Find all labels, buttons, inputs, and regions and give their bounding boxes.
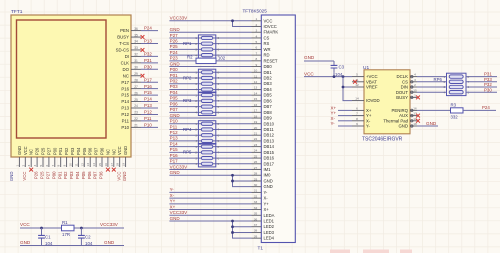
T1 pin 3 FMARK bbox=[252, 31, 262, 33]
svg-text:10: 10 bbox=[254, 69, 258, 73]
svg-text:14: 14 bbox=[254, 91, 258, 95]
svg-text:P17: P17 bbox=[144, 77, 152, 82]
svg-text:DI: DI bbox=[125, 54, 129, 59]
svg-text:P06: P06 bbox=[88, 147, 93, 155]
svg-text:8: 8 bbox=[356, 117, 358, 121]
T1 pin 5 RS bbox=[252, 43, 262, 45]
svg-text:DO: DO bbox=[123, 67, 130, 72]
svg-text:P24: P24 bbox=[482, 105, 490, 110]
svg-text:DB17: DB17 bbox=[264, 161, 275, 166]
svg-text:LED1: LED1 bbox=[264, 219, 275, 224]
T1 pin 31 Y- bbox=[252, 191, 262, 193]
svg-text:DB2: DB2 bbox=[264, 76, 273, 81]
T1 pin 35 LEDA bbox=[252, 214, 262, 216]
svg-text:3: 3 bbox=[27, 165, 31, 167]
svg-text:P13: P13 bbox=[144, 103, 152, 108]
svg-text:NC: NC bbox=[111, 149, 116, 155]
svg-text:DB0: DB0 bbox=[264, 64, 273, 69]
svg-text:24: 24 bbox=[134, 104, 138, 108]
svg-text:P02: P02 bbox=[64, 147, 69, 155]
svg-text:12: 12 bbox=[80, 163, 84, 167]
svg-text:GND: GND bbox=[20, 240, 31, 245]
wire PENIRQ to R3 bbox=[417, 109, 451, 111]
svg-text:P06: P06 bbox=[87, 171, 92, 179]
svg-text:21: 21 bbox=[254, 132, 258, 136]
no-connect X on BUSY bbox=[416, 96, 420, 100]
svg-text:DB3: DB3 bbox=[264, 81, 273, 86]
svg-text:P13: P13 bbox=[121, 106, 129, 111]
wire net GND to T1 pin 28 bbox=[169, 174, 251, 176]
svg-text:P02: P02 bbox=[63, 171, 68, 179]
T1 pin 37 LED2 bbox=[252, 226, 262, 228]
no-connect X on bottom pin 16 bbox=[106, 168, 110, 172]
svg-text:26: 26 bbox=[254, 160, 258, 164]
svg-text:31: 31 bbox=[254, 189, 258, 193]
junction C3-VCC bbox=[333, 75, 336, 78]
svg-text:32: 32 bbox=[134, 53, 138, 57]
svg-text:R3: R3 bbox=[451, 102, 457, 107]
svg-text:NC: NC bbox=[105, 149, 110, 155]
svg-text:NC: NC bbox=[29, 149, 34, 155]
svg-text:VCC33V: VCC33V bbox=[170, 210, 188, 215]
resistor pack RP6 bbox=[447, 73, 467, 95]
svg-text:R1: R1 bbox=[62, 220, 68, 225]
svg-text:P03: P03 bbox=[70, 147, 75, 155]
svg-text:16: 16 bbox=[413, 107, 417, 111]
T1 pin 30 GND bbox=[252, 186, 262, 188]
svg-text:4: 4 bbox=[255, 34, 257, 38]
wire U1 to RP6 row 2 bbox=[417, 81, 447, 83]
svg-text:332: 332 bbox=[451, 114, 459, 119]
svg-text:DB10: DB10 bbox=[264, 121, 275, 126]
svg-text:P30: P30 bbox=[144, 64, 152, 69]
svg-text:P13: P13 bbox=[144, 39, 152, 44]
svg-text:4: 4 bbox=[195, 111, 197, 115]
svg-text:7: 7 bbox=[218, 99, 220, 103]
svg-text:IOVDD: IOVDD bbox=[366, 98, 380, 103]
svg-text:LED2: LED2 bbox=[264, 224, 275, 229]
junction at C1 bbox=[40, 227, 43, 230]
wire to net P13 bbox=[141, 107, 158, 109]
svg-text:GND: GND bbox=[122, 172, 127, 182]
svg-text:13: 13 bbox=[86, 163, 90, 167]
T1 pin 16 DB7 bbox=[252, 106, 262, 108]
svg-text:P25: P25 bbox=[40, 171, 45, 179]
GND tie for pins 29 30 bbox=[233, 175, 252, 186]
resistor R3 332 bbox=[451, 108, 464, 113]
wire net Y- to T1 pin 31 bbox=[169, 191, 251, 193]
svg-text:IM1: IM1 bbox=[264, 167, 272, 172]
svg-text:GND: GND bbox=[17, 146, 22, 155]
svg-text:6: 6 bbox=[356, 107, 358, 111]
wire RP6 to net P30 bbox=[466, 91, 497, 93]
capacitor C1 104 bbox=[41, 228, 43, 235]
svg-text:15: 15 bbox=[98, 163, 102, 167]
svg-text:TFT1: TFT1 bbox=[11, 9, 23, 15]
svg-text:24: 24 bbox=[254, 149, 258, 153]
T1 pin 23 DB14 bbox=[252, 146, 262, 148]
T1 pin 1 VCC bbox=[252, 20, 262, 22]
svg-text:RP3: RP3 bbox=[183, 98, 192, 103]
svg-text:5: 5 bbox=[218, 139, 220, 143]
svg-text:8: 8 bbox=[218, 36, 220, 40]
svg-text:R2: R2 bbox=[187, 55, 193, 60]
T1 pin 7 RD bbox=[252, 54, 262, 56]
wire net P03 to T1 pin 13 bbox=[169, 88, 251, 90]
svg-text:P32: P32 bbox=[144, 52, 152, 57]
svg-text:DB13: DB13 bbox=[264, 138, 275, 143]
capacitor C3 104 bbox=[333, 61, 335, 65]
svg-text:21: 21 bbox=[134, 124, 138, 128]
wire U1 to RP6 row 4 bbox=[417, 91, 447, 93]
svg-text:DB16: DB16 bbox=[264, 156, 275, 161]
svg-text:P24: P24 bbox=[170, 50, 179, 55]
svg-text:22: 22 bbox=[254, 137, 258, 141]
svg-text:17R: 17R bbox=[62, 232, 70, 237]
svg-text:GND: GND bbox=[9, 172, 14, 182]
svg-text:19: 19 bbox=[122, 163, 126, 167]
wire net P26 to T1 pin 5 bbox=[169, 43, 251, 45]
svg-text:RD: RD bbox=[264, 53, 270, 58]
svg-text:VCC33V: VCC33V bbox=[170, 16, 188, 21]
T1 pin 28 IM0 bbox=[252, 174, 262, 176]
svg-text:C2: C2 bbox=[85, 235, 91, 240]
T1 pin 27 IM1 bbox=[252, 169, 262, 171]
svg-text:X+: X+ bbox=[264, 207, 270, 212]
wire to net P31 bbox=[141, 62, 158, 64]
T1 pin 8 RESET bbox=[252, 60, 262, 62]
svg-text:GND: GND bbox=[170, 27, 181, 32]
wire net P05 to T1 pin 15 bbox=[169, 100, 251, 102]
svg-text:TFT8K5025: TFT8K5025 bbox=[243, 8, 268, 13]
svg-text:DB8: DB8 bbox=[264, 110, 273, 115]
svg-text:CS: CS bbox=[264, 35, 270, 40]
svg-text:DB1: DB1 bbox=[264, 70, 273, 75]
resistor pack RP3 bbox=[198, 92, 215, 115]
svg-text:RP6: RP6 bbox=[434, 77, 443, 82]
svg-text:P10: P10 bbox=[170, 119, 179, 124]
wire net VCC33V to T1 pin 35 bbox=[169, 214, 251, 216]
junction VCC branch bbox=[342, 75, 345, 78]
T1 pin 17 DB8 bbox=[252, 111, 262, 113]
svg-text:GND: GND bbox=[170, 61, 181, 66]
svg-text:LED4: LED4 bbox=[264, 236, 275, 241]
T1 pin 14 DB5 bbox=[252, 94, 262, 96]
T1 pin 25 DB16 bbox=[252, 157, 262, 159]
svg-text:26: 26 bbox=[134, 91, 138, 95]
T1 pin 2 IOVCC bbox=[252, 26, 262, 28]
svg-text:P04: P04 bbox=[76, 147, 81, 155]
svg-text:LED3: LED3 bbox=[264, 230, 275, 235]
TFT module TFT1 body bbox=[11, 15, 131, 157]
svg-text:DB11: DB11 bbox=[264, 127, 275, 132]
svg-text:36: 36 bbox=[134, 27, 138, 31]
no-connect X on bottom pin 3 bbox=[29, 168, 33, 172]
svg-text:Y-: Y- bbox=[264, 190, 268, 195]
svg-text:30: 30 bbox=[134, 66, 138, 70]
svg-text:P12: P12 bbox=[170, 130, 179, 135]
svg-text:X+: X+ bbox=[170, 204, 176, 209]
svg-text:VCC: VCC bbox=[264, 18, 273, 23]
svg-text:2: 2 bbox=[195, 99, 197, 103]
no-connect X on pin 35 bbox=[141, 35, 145, 39]
wire RP6 to net P32 bbox=[466, 86, 497, 88]
svg-text:8: 8 bbox=[218, 122, 220, 126]
svg-text:7: 7 bbox=[51, 165, 55, 167]
svg-text:7: 7 bbox=[218, 128, 220, 132]
svg-text:P01: P01 bbox=[57, 171, 62, 179]
T1 pin 6 WR bbox=[252, 48, 262, 50]
resistor pack RP1 bbox=[198, 35, 215, 58]
svg-text:8: 8 bbox=[255, 57, 257, 61]
no-connect X on AUX bbox=[416, 114, 420, 118]
resistor pack RP5 bbox=[198, 144, 215, 167]
svg-text:12: 12 bbox=[355, 83, 359, 87]
svg-text:4: 4 bbox=[414, 73, 416, 77]
svg-text:VCC: VCC bbox=[117, 146, 122, 155]
no-connect X on pin 29 bbox=[141, 74, 145, 78]
svg-text:7: 7 bbox=[356, 112, 358, 116]
svg-text:P03: P03 bbox=[170, 84, 179, 89]
svg-text:6: 6 bbox=[218, 82, 220, 86]
wire to net P11 bbox=[141, 120, 158, 122]
wire GND to C3 bbox=[304, 60, 334, 62]
T1 pin 9 DB0 bbox=[252, 66, 262, 68]
wire net GND to T1 pin 36 bbox=[169, 220, 251, 222]
svg-text:1: 1 bbox=[195, 145, 197, 149]
svg-text:VCC: VCC bbox=[20, 222, 30, 227]
svg-text:1: 1 bbox=[414, 94, 416, 98]
svg-text:GND: GND bbox=[304, 55, 315, 60]
svg-text:18: 18 bbox=[254, 114, 258, 118]
svg-text:17: 17 bbox=[254, 109, 258, 113]
svg-text:4: 4 bbox=[195, 53, 197, 57]
svg-text:7: 7 bbox=[218, 42, 220, 46]
wire net GND to T1 pin 18 bbox=[169, 117, 251, 119]
svg-text:P25: P25 bbox=[170, 44, 179, 49]
svg-text:9: 9 bbox=[255, 63, 257, 67]
T1 pin 11 DB2 bbox=[252, 77, 262, 79]
svg-text:9: 9 bbox=[63, 165, 67, 167]
wire to net P14 bbox=[141, 101, 158, 103]
svg-text:P02: P02 bbox=[170, 79, 179, 84]
svg-text:C1: C1 bbox=[45, 235, 51, 240]
svg-text:38: 38 bbox=[254, 229, 258, 233]
wire to net P32 bbox=[141, 55, 158, 57]
svg-text:VCC: VCC bbox=[304, 72, 314, 77]
T1 pin 19 DB10 bbox=[252, 123, 262, 125]
svg-text:5: 5 bbox=[218, 162, 220, 166]
svg-text:DB9: DB9 bbox=[264, 116, 273, 121]
svg-text:VCC33V: VCC33V bbox=[100, 222, 119, 227]
svg-text:11: 11 bbox=[254, 74, 257, 78]
svg-text:4: 4 bbox=[195, 139, 197, 143]
wire net P11 to T1 pin 20 bbox=[169, 128, 251, 130]
svg-text:6: 6 bbox=[218, 105, 220, 109]
T1 pin 36 LED1 bbox=[252, 220, 262, 222]
svg-text:1: 1 bbox=[195, 93, 197, 97]
svg-text:P16: P16 bbox=[170, 153, 179, 158]
svg-text:TSC2046EIRGVR: TSC2046EIRGVR bbox=[362, 137, 403, 143]
svg-text:P07: P07 bbox=[93, 171, 98, 179]
wire VCC to VREF and IOVDD bbox=[343, 77, 352, 101]
svg-text:9: 9 bbox=[356, 122, 358, 126]
svg-text:8: 8 bbox=[218, 93, 220, 97]
svg-text:28: 28 bbox=[254, 172, 258, 176]
svg-text:2: 2 bbox=[195, 128, 197, 132]
T1 pin 21 DB12 bbox=[252, 134, 262, 136]
svg-text:5: 5 bbox=[218, 88, 220, 92]
svg-text:P36: P36 bbox=[100, 147, 105, 155]
svg-text:1: 1 bbox=[195, 36, 197, 40]
svg-text:27: 27 bbox=[134, 85, 138, 89]
svg-text:GND: GND bbox=[170, 216, 181, 221]
T1 pin 13 DB4 bbox=[252, 88, 262, 90]
svg-text:P07: P07 bbox=[94, 147, 99, 155]
junction at C2 bbox=[80, 227, 83, 230]
svg-text:23: 23 bbox=[134, 111, 138, 115]
svg-text:RESET: RESET bbox=[264, 58, 278, 63]
svg-text:P00: P00 bbox=[51, 171, 56, 179]
svg-text:1: 1 bbox=[15, 165, 19, 167]
svg-text:P12: P12 bbox=[144, 110, 152, 115]
svg-text:P16: P16 bbox=[121, 86, 129, 91]
wire VCC to U1 +VCC bbox=[304, 76, 352, 78]
svg-text:2: 2 bbox=[195, 42, 197, 46]
svg-text:GND: GND bbox=[123, 146, 128, 155]
wire net P04 to T1 pin 14 bbox=[169, 94, 251, 96]
svg-text:3: 3 bbox=[195, 156, 197, 160]
wire net GND to T1 pin 9 bbox=[169, 66, 251, 68]
wire U1 to RP6 row 3 bbox=[417, 86, 447, 88]
svg-text:16: 16 bbox=[104, 163, 108, 167]
T1 pin 10 DB1 bbox=[252, 71, 262, 73]
svg-text:3: 3 bbox=[195, 48, 197, 52]
svg-text:102: 102 bbox=[218, 55, 226, 60]
wire net P01 to T1 pin 11 bbox=[169, 77, 251, 79]
svg-text:14: 14 bbox=[355, 97, 359, 101]
svg-text:8: 8 bbox=[57, 165, 61, 167]
svg-text:16: 16 bbox=[254, 103, 258, 107]
T1 pin 38 LED3 bbox=[252, 231, 262, 233]
wire net P10 to T1 pin 19 bbox=[169, 123, 251, 125]
wire to net P16 bbox=[141, 88, 158, 90]
svg-text:LEDA: LEDA bbox=[264, 213, 275, 218]
svg-text:35: 35 bbox=[254, 212, 258, 216]
svg-text:6: 6 bbox=[218, 156, 220, 160]
svg-text:RP2: RP2 bbox=[183, 75, 192, 80]
svg-text:P24: P24 bbox=[144, 26, 152, 31]
wire to net P10 bbox=[141, 126, 158, 128]
svg-text:34: 34 bbox=[134, 40, 138, 44]
wire net P07 to T1 pin 17 bbox=[169, 111, 251, 113]
svg-text:29: 29 bbox=[134, 72, 138, 76]
svg-text:6: 6 bbox=[218, 48, 220, 52]
wire GND rail bbox=[20, 245, 124, 247]
svg-text:CLK: CLK bbox=[121, 60, 129, 65]
svg-text:P04: P04 bbox=[75, 171, 80, 179]
svg-text:5: 5 bbox=[218, 111, 220, 115]
wire net P13 to T1 pin 22 bbox=[169, 140, 251, 142]
svg-text:5: 5 bbox=[356, 73, 358, 77]
svg-text:6: 6 bbox=[218, 133, 220, 137]
wire net P23 to T1 pin 8 bbox=[169, 60, 251, 62]
svg-text:GND: GND bbox=[104, 240, 115, 245]
T1 pin 22 DB13 bbox=[252, 140, 262, 142]
no-connect X on pin 33 bbox=[141, 48, 145, 52]
svg-text:31: 31 bbox=[134, 59, 138, 63]
svg-text:22: 22 bbox=[134, 117, 138, 121]
wire net P15 to T1 pin 24 bbox=[169, 151, 251, 153]
wire VCC33V branch to IOVCC pin 2 bbox=[233, 21, 252, 27]
svg-text:3: 3 bbox=[195, 105, 197, 109]
svg-text:P00: P00 bbox=[170, 67, 179, 72]
svg-text:2: 2 bbox=[21, 165, 25, 167]
pink smudge artifacts at bottom edge bbox=[330, 250, 350, 253]
svg-text:DB15: DB15 bbox=[264, 150, 275, 155]
capacitor C2 104 bbox=[80, 228, 82, 235]
T1 pin 24 DB15 bbox=[252, 151, 262, 153]
wire to net P17 bbox=[141, 81, 158, 83]
svg-text:P27: P27 bbox=[170, 33, 179, 38]
T1 pin 20 DB11 bbox=[252, 128, 262, 130]
svg-text:VREF: VREF bbox=[366, 85, 378, 90]
svg-text:BUSY: BUSY bbox=[117, 35, 129, 40]
svg-text:8: 8 bbox=[218, 70, 220, 74]
svg-text:P16: P16 bbox=[144, 84, 152, 89]
svg-text:P01: P01 bbox=[170, 73, 179, 78]
resistor R1 bbox=[62, 225, 75, 231]
wire net P25 to T1 pin 6 bbox=[169, 48, 251, 50]
wire net X+ to T1 pin 34 bbox=[169, 209, 251, 211]
svg-text:RP4: RP4 bbox=[183, 127, 192, 132]
connector T1 body bbox=[261, 15, 295, 243]
svg-text:DB12: DB12 bbox=[264, 133, 275, 138]
svg-text:P01: P01 bbox=[58, 147, 63, 155]
svg-text:P11: P11 bbox=[144, 116, 152, 121]
svg-text:15: 15 bbox=[254, 97, 258, 101]
svg-text:7: 7 bbox=[218, 76, 220, 80]
svg-text:Y-: Y- bbox=[366, 124, 370, 129]
svg-text:25: 25 bbox=[254, 154, 258, 158]
svg-text:20: 20 bbox=[254, 126, 258, 130]
svg-text:RP5: RP5 bbox=[183, 150, 192, 155]
svg-text:VCC: VCC bbox=[116, 172, 121, 181]
svg-text:10: 10 bbox=[69, 163, 73, 167]
svg-text:8: 8 bbox=[218, 145, 220, 149]
svg-text:X-: X- bbox=[170, 193, 175, 198]
wire net P27 to T1 pin 4 bbox=[169, 37, 251, 39]
svg-text:DB6: DB6 bbox=[264, 98, 273, 103]
wire RP6 to net P33 bbox=[466, 81, 497, 83]
svg-text:11: 11 bbox=[74, 163, 78, 166]
wire net GND to T1 pin 3 bbox=[169, 31, 251, 33]
svg-text:P23: P23 bbox=[170, 56, 179, 61]
svg-text:P03: P03 bbox=[69, 171, 74, 179]
svg-text:NC: NC bbox=[123, 73, 129, 78]
svg-text:3: 3 bbox=[255, 29, 257, 33]
svg-text:19: 19 bbox=[254, 120, 258, 124]
svg-text:P14: P14 bbox=[144, 97, 152, 102]
svg-text:DB7: DB7 bbox=[264, 104, 273, 109]
wire net VCC33V to T1 pin 1 bbox=[169, 20, 251, 22]
svg-text:4: 4 bbox=[195, 162, 197, 166]
svg-text:P05: P05 bbox=[170, 96, 179, 101]
svg-text:P14: P14 bbox=[121, 99, 129, 104]
no-connect X on Thermal Pad bbox=[416, 119, 420, 123]
wire net P12 to T1 pin 21 bbox=[169, 134, 251, 136]
T1 pin 29 GND bbox=[252, 180, 262, 182]
